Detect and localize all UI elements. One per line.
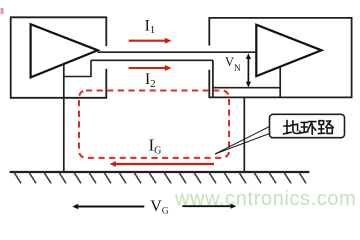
op-amp A1 (left amplifier) (31, 24, 98, 77)
ground plane line (10, 171, 310, 173)
wire: A2 common rail (horizontal inside right box) (213, 87, 280, 89)
ground loop current arrow IG (110, 161, 215, 167)
noise voltage arrow VN (double headed) (246, 53, 251, 87)
ground voltage arrow VG left part (72, 204, 144, 209)
wire: return conductor (lower line between boxes) (91, 59, 213, 61)
svg-text:I2: I2 (145, 71, 156, 90)
callout label box (ground loop) (270, 114, 345, 137)
wire: right step from return conductor down to A2 common rail (212, 60, 214, 97)
svg-text:IG: IG (149, 135, 162, 156)
callout pointer lines to ground loop (215, 127, 270, 155)
char 环 (301, 121, 308, 123)
red artifact at left edge (1, 8, 4, 14)
op-amp A2 (right amplifier) (256, 25, 321, 76)
wire: A2 common vertical from triangle bottom to box bottom (279, 66, 281, 97)
right circuit enclosure box (209, 18, 351, 98)
char 地 (284, 125, 291, 127)
current arrow I1 (129, 38, 172, 44)
svg-text:VG: VG (150, 198, 169, 216)
ground hatching (14, 172, 306, 183)
current arrow I2 (129, 65, 172, 71)
label text: 地环路 (drawn strokes) (284, 120, 334, 134)
ground voltage arrow VG right part (182, 204, 236, 209)
ground-loop dashed path IG (79, 91, 229, 158)
svg-text:VN: VN (225, 55, 241, 73)
char 路 (319, 121, 324, 125)
wire: right ground conductor to ground plane (243, 97, 245, 172)
wire: A1 common vertical to ground plane (63, 64, 65, 172)
svg-text:I1: I1 (145, 18, 156, 37)
wire: top signal conductor (A1 output to A2 input) (98, 51, 257, 53)
left circuit enclosure box (11, 17, 107, 98)
wire: left step from return conductor down into A1 common (64, 60, 91, 76)
